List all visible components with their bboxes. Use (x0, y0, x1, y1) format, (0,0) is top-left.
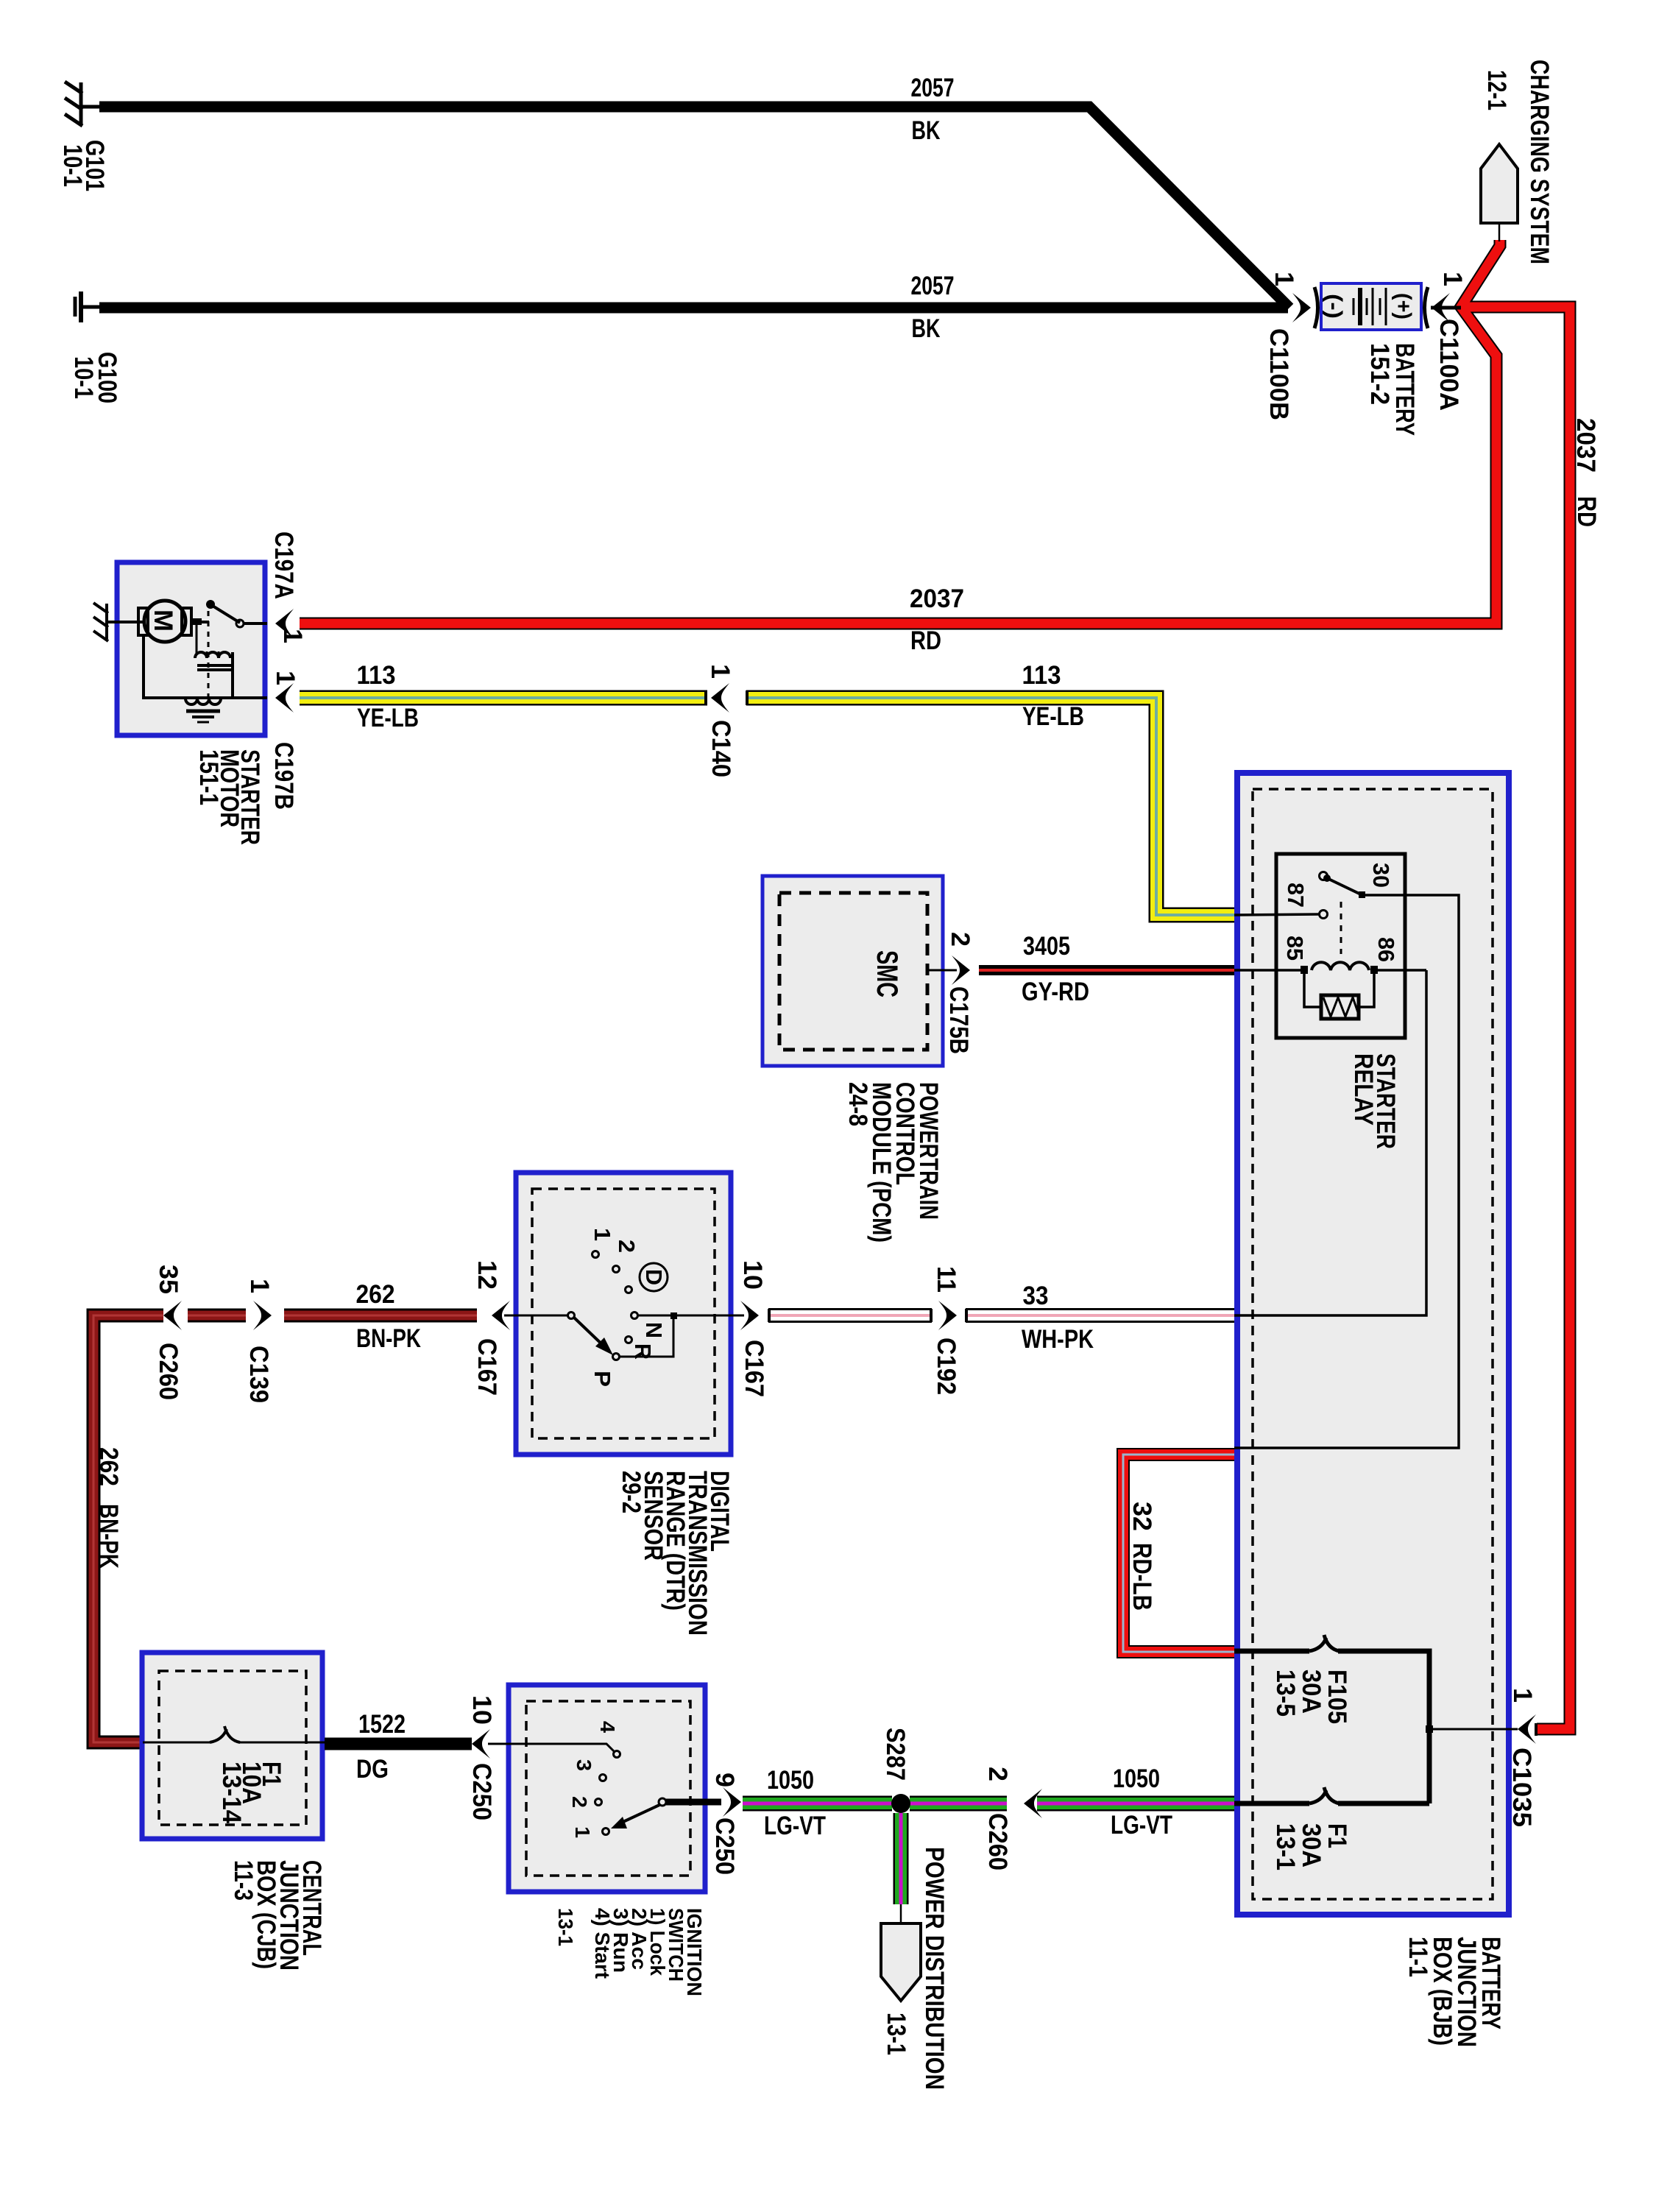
svg-text:87: 87 (1283, 883, 1309, 908)
battery B (151-2) (1321, 283, 1421, 330)
svg-text:1050: 1050 (767, 1766, 814, 1795)
svg-text:3: 3 (573, 1759, 595, 1771)
svg-text:S287: S287 (881, 1728, 910, 1781)
ignition contact 3 (573, 1759, 606, 1781)
DTR contact R (626, 1337, 657, 1360)
ignition contact 1 (571, 1826, 609, 1838)
fuse F105 30A (13-5) (1234, 1635, 1429, 1803)
svg-text:10: 10 (738, 1260, 767, 1290)
svg-text:C250: C250 (710, 1817, 739, 1875)
svg-text:32: 32 (1128, 1502, 1156, 1531)
svg-text:2057: 2057 (911, 74, 955, 102)
svg-text:12-1: 12-1 (1482, 70, 1511, 110)
wire 33 WH-PK (DTR to relay 86) (768, 1308, 1234, 1323)
connector C1035 (pin 1) (1507, 1688, 1537, 1827)
DTR sensor box (29-2) (516, 1173, 731, 1455)
motor M symbol (138, 601, 191, 642)
connector C192 (pin 11) (932, 1266, 960, 1395)
svg-text:86: 86 (1373, 937, 1399, 962)
wire LG-VT drop to power distribution (894, 1813, 909, 1923)
ignition contact 2 (568, 1796, 602, 1808)
wire 32 RD-LB (F105 to relay 30, U-loop) (1123, 1455, 1234, 1652)
wire 2057 BK (G100 to battery) (99, 303, 1288, 314)
wire CJB to ignition contact 4 (488, 1744, 614, 1751)
label 2037 RD (vertical, right side) (1571, 418, 1601, 527)
SMC inner dashed box (779, 893, 927, 1050)
svg-text:12: 12 (473, 1260, 501, 1290)
CJB inner dashed border (159, 1671, 306, 1825)
svg-text:85: 85 (1282, 936, 1308, 961)
svg-text:CHARGING SYSTEM: CHARGING SYSTEM (1525, 60, 1554, 264)
ground G100 (75, 291, 101, 322)
powertrain control module box (762, 876, 943, 1066)
label CHARGING SYSTEM 12-1 (1482, 60, 1554, 264)
label POWER DISTRIBUTION 13-1 (882, 1847, 949, 2090)
svg-text:1050: 1050 (1113, 1764, 1160, 1793)
label 1522 DG (356, 1710, 406, 1784)
ignition switch arm (611, 1798, 666, 1828)
svg-text:10-1: 10-1 (58, 144, 87, 187)
connector C167 right (pin 10) (738, 1260, 768, 1397)
svg-text:SMC: SMC (871, 950, 903, 997)
svg-text:1: 1 (1270, 272, 1298, 286)
svg-text:C197A: C197A (269, 531, 298, 599)
wire ignition pin 9 stub (666, 1799, 721, 1806)
label 113 YE-LB (right) (1022, 661, 1085, 731)
wire 2057 BK (G101 to battery, with diagonal) (99, 107, 1289, 308)
svg-text:2037: 2037 (910, 584, 964, 613)
ignition switch box (13-1) (509, 1685, 705, 1892)
svg-text:C139: C139 (244, 1346, 273, 1403)
relay coil (1234, 962, 1426, 970)
starter switch contacts (206, 600, 244, 704)
svg-text:1522: 1522 (358, 1710, 406, 1739)
svg-text:P: P (590, 1371, 615, 1387)
svg-text:N: N (641, 1322, 667, 1338)
svg-text:1: 1 (271, 671, 300, 685)
svg-text:GY-RD: GY-RD (1022, 978, 1089, 1006)
ground (starter motor chassis) (93, 603, 118, 641)
svg-text:C197B: C197B (269, 742, 298, 810)
relay coil resistor (1304, 974, 1374, 1019)
svg-text:1: 1 (278, 629, 307, 643)
relay switch (1320, 872, 1366, 955)
svg-text:C1035: C1035 (1507, 1748, 1536, 1827)
svg-text:1: 1 (571, 1826, 594, 1838)
wire relay 86 to wire 33 (inside BJB) (1234, 970, 1426, 1315)
DTR contact P (590, 1354, 620, 1388)
svg-text:YE-LB: YE-LB (1022, 702, 1084, 731)
DTR contact 1 (590, 1228, 615, 1258)
svg-text:YE-LB: YE-LB (357, 704, 419, 732)
ignition contact 4 (596, 1721, 620, 1758)
wire 262 BN-PK (DTR to CJB) (93, 1315, 477, 1742)
splice S287 (881, 1728, 910, 1813)
label 113 YE-LB (left) (357, 661, 420, 732)
wire 1050 LG-VT (ignition to F1 fuse) (743, 1796, 1234, 1812)
starter solenoid pull-in coil (191, 618, 233, 698)
svg-text:C140: C140 (707, 720, 735, 777)
svg-text:2: 2 (614, 1240, 640, 1253)
battery junction box BJB (11-1) (1237, 773, 1509, 1915)
svg-text:1: 1 (1508, 1688, 1537, 1703)
svg-text:D: D (641, 1269, 667, 1285)
DTR contact D (circled) (626, 1263, 668, 1293)
connector C1100A (pin 1, arrow + bracket) (1425, 272, 1468, 411)
svg-text:35: 35 (154, 1265, 183, 1294)
svg-text:11: 11 (932, 1266, 960, 1293)
label 1050 LG-VT (right) (1111, 1764, 1172, 1840)
connector C250 right (pin 9) (710, 1773, 741, 1875)
svg-text:C1100B: C1100B (1264, 328, 1293, 420)
svg-text:C175B: C175B (944, 986, 973, 1054)
label 3405 GY-RD (1022, 932, 1089, 1006)
connector C250 left (pin 10) (467, 1695, 496, 1820)
svg-text:9: 9 (710, 1773, 739, 1787)
connector C1100B (pin 1, arrow + bracket) (1264, 272, 1318, 420)
connector C167 left (pin 12) (473, 1260, 510, 1396)
svg-text:BK: BK (912, 116, 941, 145)
DTR contact 2 (613, 1240, 640, 1273)
svg-text:1: 1 (706, 664, 735, 679)
label G100 10-1 (69, 352, 121, 403)
starter motor box (151-1) (117, 562, 265, 735)
svg-text:C260: C260 (983, 1813, 1012, 1870)
label 262 BN-PK (vertical) (94, 1447, 123, 1569)
wire C1035 to fuse junction (1426, 1725, 1518, 1733)
power distribution arrow (off-page pentagon) (881, 1923, 921, 2001)
starter solenoid hold-in coil + ground bars (185, 699, 221, 722)
svg-text:LG-VT: LG-VT (764, 1812, 826, 1840)
wire end caps (706, 690, 1536, 1736)
connector C197A (pin 1) (269, 531, 307, 643)
svg-text:C1100A: C1100A (1434, 319, 1463, 411)
svg-text:M: M (149, 609, 177, 632)
label 2037 RD (horizontal, near starter) (910, 584, 964, 655)
svg-text:BN-PK: BN-PK (356, 1324, 421, 1353)
svg-text:BK: BK (912, 314, 941, 343)
svg-text:2057: 2057 (911, 272, 955, 300)
svg-text:2: 2 (946, 932, 974, 947)
label 33 WH-PK (1022, 1282, 1094, 1354)
svg-text:262: 262 (356, 1280, 395, 1309)
wire relay 87 to YE-LB (1234, 914, 1320, 915)
starter internal wires (118, 604, 267, 699)
connector C260 (pin 2) (983, 1767, 1042, 1870)
svg-text:1: 1 (1438, 272, 1467, 286)
DTR contact N (631, 1312, 668, 1339)
svg-text:2: 2 (568, 1796, 591, 1808)
charging system arrow (off-page pentagon) (1481, 144, 1518, 241)
wire 113 YE-LB (starter solenoid to relay 87) (300, 698, 1235, 915)
svg-text:13-1: 13-1 (882, 2013, 910, 2055)
svg-text:10-1: 10-1 (69, 356, 98, 399)
BJB inner dashed border (1253, 789, 1493, 1899)
svg-text:C250: C250 (467, 1763, 496, 1820)
svg-text:113: 113 (357, 661, 396, 690)
svg-text:DG: DG (356, 1755, 389, 1784)
ground G101 (65, 82, 101, 126)
svg-text:3405: 3405 (1023, 932, 1070, 961)
svg-text:LG-VT: LG-VT (1111, 1811, 1172, 1840)
svg-text:1: 1 (590, 1228, 615, 1241)
svg-text:C192: C192 (932, 1338, 960, 1395)
svg-text:4: 4 (596, 1721, 619, 1733)
connector C175B (pin 2) (927, 932, 974, 1054)
svg-text:113: 113 (1022, 661, 1061, 690)
label 1050 LG-VT (left) (764, 1766, 826, 1840)
svg-text:C167: C167 (740, 1340, 768, 1397)
svg-text:33: 33 (1023, 1282, 1049, 1310)
central junction box CJB (11-3) (142, 1653, 322, 1839)
starter relay box (1276, 854, 1405, 1038)
svg-text:(+): (+) (1391, 293, 1415, 319)
svg-text:BN-PK: BN-PK (94, 1504, 123, 1569)
connector C139 (pin 1) (244, 1279, 274, 1403)
svg-text:30: 30 (1368, 863, 1394, 888)
svg-text:262: 262 (94, 1447, 123, 1486)
label G101 10-1 (58, 140, 109, 191)
svg-text:2037: 2037 (1571, 418, 1600, 473)
ignition inner dashed border (526, 1701, 690, 1876)
wire 3405 GY-RD (PCM to relay coil 85) (979, 965, 1234, 975)
svg-text:RD: RD (1572, 496, 1601, 527)
connector C140 (pin 1) (706, 664, 735, 777)
label 2057 BK (upper) (911, 74, 955, 145)
svg-text:2: 2 (983, 1767, 1012, 1781)
wire relay 30 to F105 (inside BJB) (1234, 895, 1459, 1448)
label 32 RD-LB (1128, 1502, 1156, 1611)
svg-text:C260: C260 (154, 1343, 183, 1400)
connector C260 (pin 35) (154, 1265, 183, 1400)
wire 1522 DG (CJB to ignition switch) (325, 1738, 472, 1750)
DTR inner dashed border (532, 1189, 715, 1438)
svg-text:1: 1 (245, 1279, 274, 1293)
svg-text:POWER DISTRIBUTION: POWER DISTRIBUTION (920, 1847, 949, 2090)
DTR internal wires (504, 1315, 744, 1357)
svg-text:(-): (-) (1322, 294, 1346, 319)
label 262 BN-PK (horizontal) (356, 1280, 422, 1353)
DTR switch arm (568, 1312, 614, 1356)
label 2057 BK (lower) (911, 272, 955, 343)
svg-text:WH-PK: WH-PK (1022, 1325, 1094, 1354)
svg-text:10: 10 (467, 1695, 496, 1725)
fuse F1 30A (13-1) (1234, 1787, 1429, 1870)
svg-text:RD-LB: RD-LB (1128, 1543, 1156, 1611)
svg-text:C167: C167 (473, 1338, 501, 1396)
connector C197B (pin 1) (269, 671, 300, 810)
fuse F1 10A (13-14) (143, 1726, 325, 1823)
svg-text:RD: RD (910, 626, 941, 655)
wire 2037 RD main red feed (battery + to starter and BJB) (300, 240, 1570, 1729)
